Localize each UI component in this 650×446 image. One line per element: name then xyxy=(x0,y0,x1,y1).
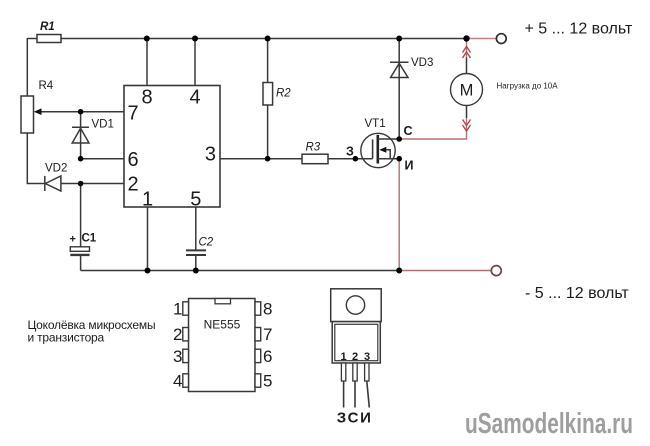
wire R2 bottom to pin3 line xyxy=(267,105,269,159)
wire pin 1 xyxy=(147,207,149,271)
DIP pin 2 box xyxy=(183,328,189,341)
wire pin 6 xyxy=(81,158,124,160)
svg-text:5: 5 xyxy=(263,371,272,390)
wire pin 8 xyxy=(146,39,148,86)
resistor R1 xyxy=(37,35,61,43)
wire pin 3 to R3 xyxy=(220,158,302,160)
svg-text:4: 4 xyxy=(189,87,200,109)
wire R2 top xyxy=(267,39,269,83)
TO-220 hole xyxy=(346,296,364,314)
wire pin 5 to C2 xyxy=(195,207,197,250)
svg-text:C2: C2 xyxy=(199,237,214,249)
transistor VT1 MOSFET xyxy=(361,133,399,167)
wire top rail R1 to motor junction xyxy=(61,38,467,40)
node top rail motor xyxy=(463,35,469,41)
svg-text:3: 3 xyxy=(173,347,182,366)
node gate xyxy=(353,156,359,162)
svg-text:7: 7 xyxy=(128,103,139,125)
wire C1 to bottom rail xyxy=(80,256,82,271)
svg-text:3: 3 xyxy=(364,351,370,363)
svg-text:+: + xyxy=(70,234,76,246)
svg-text:1: 1 xyxy=(341,351,347,363)
svg-text:С: С xyxy=(348,410,359,427)
node source И xyxy=(396,156,402,162)
wire R3 to gate xyxy=(328,158,373,160)
wire R4 bottom to VD2 xyxy=(27,133,45,184)
node bottom rail source xyxy=(396,268,402,274)
svg-text:2: 2 xyxy=(352,351,358,363)
svg-text:8: 8 xyxy=(263,300,272,319)
TO-220 tab xyxy=(331,289,382,322)
svg-text:R1: R1 xyxy=(40,21,55,33)
wire VD1 vertical xyxy=(80,112,82,159)
wire motor bottom lead xyxy=(466,105,468,118)
TO-220 lead 1 xyxy=(341,363,345,408)
svg-text:Нагрузка до 10А: Нагрузка до 10А xyxy=(497,82,559,91)
red wire source down to bottom rail xyxy=(398,159,400,271)
diode VD2 xyxy=(45,176,61,191)
minus terminal xyxy=(491,266,501,276)
DIP notch xyxy=(215,299,231,304)
svg-text:- 5 ... 12 вольт: - 5 ... 12 вольт xyxy=(525,285,629,302)
plus terminal xyxy=(496,34,506,44)
wire pin 4 xyxy=(194,39,196,86)
node top rail pin8 xyxy=(144,36,150,42)
svg-text:6: 6 xyxy=(128,149,139,171)
svg-text:R2: R2 xyxy=(276,88,291,100)
red chevron arrows up (motor top) xyxy=(463,47,471,59)
svg-text:5: 5 xyxy=(190,189,201,211)
wire VD3 vertical xyxy=(398,39,400,140)
wire pin2 node down to C1 xyxy=(80,184,82,247)
svg-text:4: 4 xyxy=(173,371,182,390)
red wire bottom rail to minus terminal xyxy=(399,270,491,272)
DIP pin 5 box xyxy=(255,374,261,387)
svg-text:6: 6 xyxy=(263,347,272,366)
node bottom rail pin1 xyxy=(145,268,151,274)
wiper arrow of R4 xyxy=(34,108,42,115)
motor M xyxy=(451,74,483,106)
DIP package NE555 body xyxy=(189,299,256,392)
svg-text:8: 8 xyxy=(141,87,152,109)
wire VD2 to pin2 node xyxy=(61,183,124,185)
svg-text:7: 7 xyxy=(263,325,272,344)
svg-text:NE555: NE555 xyxy=(204,318,241,332)
IC U1 555 body xyxy=(124,86,220,208)
red wire motor top arrow segment xyxy=(466,40,468,58)
wire R4 wiper / pin 7 xyxy=(40,111,124,113)
node top rail R2 xyxy=(265,36,271,42)
DIP pin 1 box xyxy=(183,302,189,315)
wire bottom rail xyxy=(81,270,400,272)
DIP pin 3 box xyxy=(183,349,189,362)
svg-text:З: З xyxy=(337,410,346,427)
svg-text:3: 3 xyxy=(205,144,216,166)
TO-220 lead 2 xyxy=(353,363,357,408)
TO-220 body inner xyxy=(335,324,378,360)
node wiper pin7 xyxy=(78,109,84,115)
resistor R2 xyxy=(263,83,273,106)
node pin2 xyxy=(78,181,84,187)
DIP pin 8 box xyxy=(255,302,261,315)
node top rail pin4 xyxy=(192,36,198,42)
svg-text:VD2: VD2 xyxy=(45,163,67,175)
red wire top rail to plus terminal xyxy=(467,38,496,40)
wire top rail left lead to R1 xyxy=(27,38,37,40)
svg-text:VD1: VD1 xyxy=(92,119,114,131)
svg-text:2: 2 xyxy=(128,174,139,196)
svg-text:R3: R3 xyxy=(306,142,321,154)
diode VD1 xyxy=(72,127,89,143)
wire C2 to bottom rail xyxy=(195,256,197,271)
svg-text:uSamodelkina.ru: uSamodelkina.ru xyxy=(465,408,633,440)
svg-text:2: 2 xyxy=(173,325,182,344)
node pin6 xyxy=(78,156,84,162)
node drain C xyxy=(396,136,402,142)
wire motor top lead xyxy=(466,58,468,74)
TO-220 body outer xyxy=(332,322,380,363)
DIP pin 4 box xyxy=(183,374,189,387)
TO-220 lead 3 xyxy=(365,363,370,408)
node top rail VD3 xyxy=(396,36,402,42)
wire left vertical R1 to R4 xyxy=(26,38,28,96)
svg-text:1: 1 xyxy=(173,300,182,319)
svg-text:VT1: VT1 xyxy=(365,118,386,130)
diode VD3 xyxy=(390,62,409,77)
svg-text:VD3: VD3 xyxy=(411,57,433,69)
svg-text:С: С xyxy=(404,124,413,138)
capacitor C1 xyxy=(70,247,89,255)
svg-text:З: З xyxy=(346,145,354,159)
DIP pin 7 box xyxy=(255,328,261,341)
svg-text:+ 5 ... 12 вольт: + 5 ... 12 вольт xyxy=(525,21,633,38)
resistor R3 xyxy=(302,154,328,164)
svg-text:1: 1 xyxy=(142,189,153,211)
svg-text:R4: R4 xyxy=(39,80,54,92)
potentiometer R4 xyxy=(21,96,34,133)
capacitor C2 xyxy=(186,250,206,255)
svg-text:и транзистора: и транзистора xyxy=(28,331,105,345)
svg-text:И: И xyxy=(405,159,414,173)
node bottom rail C2 xyxy=(193,268,199,274)
svg-text:C1: C1 xyxy=(82,233,97,245)
svg-text:И: И xyxy=(360,410,371,427)
DIP pin 6 box xyxy=(255,349,261,362)
red wire drain to motor xyxy=(399,118,466,139)
red chevron arrows down (motor bottom) xyxy=(463,120,471,132)
node R2 pin3 xyxy=(265,156,271,162)
svg-text:M: M xyxy=(460,82,474,100)
